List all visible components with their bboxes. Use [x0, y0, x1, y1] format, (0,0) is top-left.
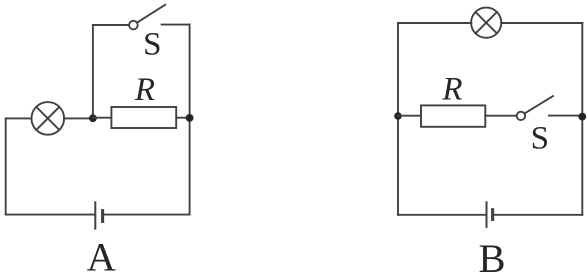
switch S (circuit A) lever arm: [137, 5, 165, 23]
lamp L1 (circle with cross): [32, 102, 65, 135]
wire: B left vertical: [397, 23, 399, 215]
node: B right junction dot: [578, 113, 586, 121]
wire: node to resistor R: [93, 117, 112, 119]
wire: A lamp right lead to node: [64, 117, 93, 119]
svg-text:R: R: [441, 72, 462, 108]
svg-text:R: R: [134, 72, 155, 108]
wire: B bottom left segment: [398, 214, 486, 216]
wire: A switch-branch top left horizontal: [93, 24, 129, 26]
wire: switch S to right node (circuit B): [549, 115, 582, 117]
switch S (circuit B) lever arm: [525, 96, 553, 113]
node: A right junction dot: [186, 114, 194, 122]
resistor R (circuit A) body: [111, 107, 176, 128]
wire: node to resistor R (circuit B): [398, 115, 421, 117]
wire: B bottom right segment: [494, 214, 583, 216]
resistor R (circuit B) body: [421, 105, 485, 126]
wire: A lamp left lead: [6, 117, 32, 119]
wire: B right vertical: [581, 23, 583, 215]
lamp L2 (circle with cross): [471, 8, 501, 38]
switch S (circuit B) pivot circle: [517, 112, 525, 120]
battery BT1 long plate: [94, 202, 96, 228]
wire: A bottom right segment: [104, 214, 190, 216]
battery BT1 short plate: [101, 211, 104, 222]
switch S (circuit A) pivot circle: [129, 21, 138, 30]
wire: resistor R to switch S (circuit B): [485, 115, 516, 117]
svg-text:A: A: [87, 235, 116, 274]
battery BT2 long plate: [486, 202, 488, 227]
node: A left junction dot: [89, 114, 97, 122]
node: B left junction dot: [394, 112, 402, 120]
wire: A bottom left segment: [6, 214, 95, 216]
battery BT2 short plate: [491, 210, 494, 220]
wire: B top left segment: [398, 22, 471, 24]
wire: A switch-branch top right horizontal: [162, 24, 190, 26]
wire: B top right segment: [501, 22, 582, 24]
svg-text:S: S: [143, 27, 161, 63]
svg-text:S: S: [531, 121, 549, 157]
wire: A left vertical: [5, 118, 7, 214]
wire: A right vertical: [189, 25, 191, 215]
svg-text:B: B: [478, 236, 505, 274]
wire: A switch-branch left vertical riser: [92, 25, 94, 115]
wire: resistor R to right node: [176, 117, 189, 119]
